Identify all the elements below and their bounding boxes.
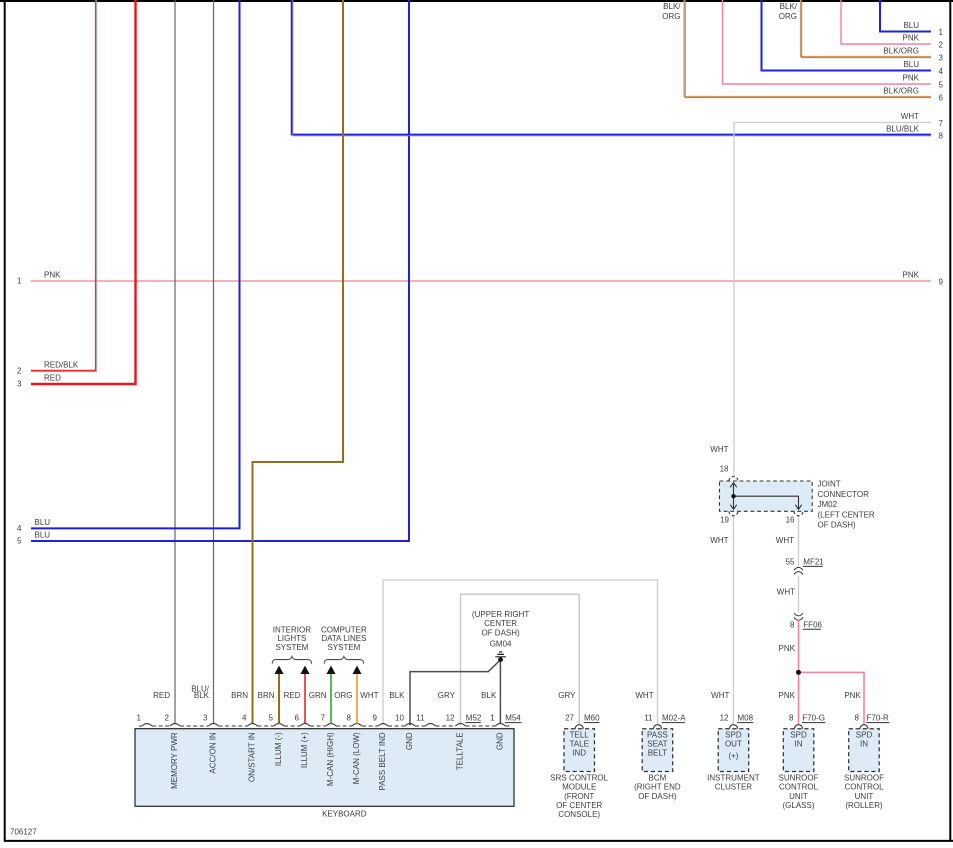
component sunroof control unit roller (SPD IN) [844,714,890,810]
svg-text:SUNROOF: SUNROOF [779,773,819,782]
svg-text:7: 7 [321,714,326,723]
svg-text:9: 9 [939,277,944,286]
svg-text:WHT: WHT [710,445,728,454]
wire BLU/BLK to keyboard pin 3 (drawn gray) [213,0,215,724]
svg-text:8: 8 [939,131,944,140]
svg-text:4: 4 [242,714,247,723]
svg-text:UNIT: UNIT [789,792,808,801]
svg-text:ACC/ON IN: ACC/ON IN [209,732,218,774]
wire WHT (right exit 7 to JM02 pin 18) [710,112,943,477]
svg-text:BRN: BRN [258,691,275,700]
svg-text:3: 3 [203,714,208,723]
junction dot on PNK wire [796,670,801,675]
svg-text:GRY: GRY [438,691,456,700]
svg-text:BLK/ORG: BLK/ORG [883,87,919,96]
wire BRN keyboard pin 5 arrow to interior lights system [278,673,280,724]
keyboard connector name M52 [466,714,482,723]
svg-text:5: 5 [269,714,274,723]
svg-text:OF DASH): OF DASH) [818,521,857,530]
svg-text:PASS BELT IND: PASS BELT IND [378,732,387,790]
svg-text:SRS CONTROL: SRS CONTROL [550,773,608,782]
keyboard connector pin bumps [142,724,505,726]
svg-text:ON/START IN: ON/START IN [248,732,257,782]
svg-text:5: 5 [17,537,22,546]
svg-text:PNK: PNK [779,691,796,700]
keyboard connector M52/M54 dashed line [139,725,510,727]
svg-text:(RIGHT END: (RIGHT END [634,783,681,792]
svg-text:8: 8 [347,714,352,723]
svg-text:WHT: WHT [711,691,729,700]
svg-text:WHT: WHT [901,112,919,121]
wire RED keyboard pin 6 arrow to interior lights system [304,673,306,724]
svg-text:INTERIOR: INTERIOR [273,625,311,634]
svg-text:GRY: GRY [558,691,576,700]
svg-text:GRN: GRN [309,691,327,700]
svg-text:8: 8 [855,714,860,723]
svg-text:6: 6 [939,93,944,102]
svg-text:M08: M08 [738,714,754,723]
wire GRN keyboard pin 7 arrow to computer data lines system [330,673,332,724]
wire PNK (left 1 / right 9) [17,271,943,287]
keyboard connector pin numbers M52 [137,714,455,723]
wire WHT MF21 to FF06 [777,576,799,612]
svg-text:CENTER: CENTER [484,619,517,628]
keyboard wire color labels [153,685,729,700]
svg-text:WHT: WHT [635,691,653,700]
svg-text:BLK/: BLK/ [780,2,798,11]
svg-text:3: 3 [939,53,944,62]
svg-text:SYSTEM: SYSTEM [275,643,308,652]
svg-text:1: 1 [939,28,944,37]
svg-text:10: 10 [395,714,404,723]
svg-text:1: 1 [490,714,495,723]
svg-text:BLU: BLU [903,60,919,69]
svg-text:FF06: FF06 [803,620,822,629]
svg-text:(+): (+) [728,752,738,761]
brace interior lights system [272,625,311,664]
svg-text:2: 2 [939,40,944,49]
svg-text:BLU: BLU [35,531,51,540]
svg-text:COMPUTER: COMPUTER [321,625,367,634]
svg-text:(LEFT CENTER: (LEFT CENTER [818,510,875,519]
wire BLU (right exit 4) [762,0,944,76]
svg-text:11: 11 [644,714,653,723]
svg-text:27: 27 [565,714,574,723]
svg-text:BLK: BLK [481,691,497,700]
svg-text:8: 8 [790,620,795,629]
wire ORG keyboard pin 8 arrow to computer data lines system [356,673,358,724]
svg-text:2: 2 [17,367,22,376]
svg-text:IN: IN [860,740,868,749]
svg-text:SUNROOF: SUNROOF [844,773,884,782]
svg-text:19: 19 [720,515,729,524]
wire PNK (right exit 5) [723,0,944,89]
svg-text:BLK: BLK [194,691,210,700]
wire PNK (right exit 2) [841,0,944,49]
svg-text:(GLASS): (GLASS) [782,801,814,810]
svg-text:TELLTALE: TELLTALE [456,732,465,770]
wire BLU (right exit 1) [880,0,944,37]
wire BLK/ORG (right exit 6) [662,0,943,102]
svg-text:BLU/BLK: BLU/BLK [886,125,920,134]
keyboard pin function labels (rotated) [170,732,504,791]
svg-text:OUT: OUT [725,740,742,749]
svg-text:55: 55 [786,558,795,567]
wire BLU (left exit 5) [17,0,409,546]
svg-text:CONTROL: CONTROL [779,783,819,792]
wire BLK keyboard M54 pin 1 to ground GM04 [481,660,500,724]
svg-text:WHT: WHT [777,587,795,596]
svg-text:PNK: PNK [903,74,920,83]
svg-text:BCM: BCM [649,773,667,782]
svg-text:PNK: PNK [779,644,796,653]
svg-text:MF21: MF21 [803,558,824,567]
svg-text:CONNECTOR: CONNECTOR [818,490,870,499]
svg-text:OF DASH): OF DASH) [638,792,677,801]
svg-text:2: 2 [165,714,170,723]
svg-text:BRN: BRN [231,691,248,700]
svg-text:BLK: BLK [389,691,405,700]
wire BLU (left exit 4) [17,0,239,533]
svg-text:IND: IND [572,749,586,758]
keyboard connector name M54 [505,714,522,723]
svg-text:6: 6 [295,714,300,723]
svg-text:UNIT: UNIT [855,792,874,801]
wire WHT JM02 pin 19 to instrument cluster pin 12 [733,516,735,725]
svg-text:3: 3 [17,380,22,389]
joint connector JM02 [720,477,875,530]
svg-text:(UPPER RIGHT: (UPPER RIGHT [472,610,529,619]
svg-text:SPD: SPD [790,730,807,739]
svg-text:16: 16 [786,515,795,524]
svg-text:RED/BLK: RED/BLK [44,361,79,370]
svg-text:RED: RED [44,374,61,383]
svg-text:MODULE: MODULE [562,783,596,792]
svg-text:ILLUM (-): ILLUM (-) [274,732,283,766]
wire WHT keyboard pin 9 to BCM pin 11 [383,580,658,725]
svg-text:(FRONT: (FRONT [564,792,594,801]
svg-text:12: 12 [446,714,455,723]
svg-text:ORG: ORG [334,691,352,700]
svg-text:IN: IN [795,740,803,749]
svg-text:DATA LINES: DATA LINES [321,634,366,643]
svg-text:KEYBOARD: KEYBOARD [322,809,367,818]
svg-text:GM04: GM04 [490,639,512,648]
svg-text:CONTROL: CONTROL [844,783,884,792]
svg-text:WHT: WHT [360,691,378,700]
svg-text:12: 12 [720,714,729,723]
svg-text:WHT: WHT [776,536,794,545]
svg-text:WHT: WHT [710,536,728,545]
wire PNK FF06 to sunroof units [779,620,864,725]
svg-text:INSTRUMENT: INSTRUMENT [707,773,760,782]
svg-text:LIGHTS: LIGHTS [277,634,306,643]
svg-text:M-CAN (LOW): M-CAN (LOW) [352,732,361,784]
component sunroof control unit glass (SPD IN) [779,714,826,810]
keyboard box [135,729,514,819]
svg-text:RED: RED [284,691,301,700]
component BCM (PASS SEAT BELT) [634,714,686,801]
svg-text:BLU: BLU [903,21,919,30]
svg-text:9: 9 [373,714,378,723]
svg-text:SPD: SPD [856,730,873,739]
svg-text:1: 1 [137,714,142,723]
svg-text:M52: M52 [466,714,482,723]
svg-text:BELT: BELT [648,749,668,758]
svg-text:SEAT: SEAT [647,740,667,749]
svg-text:18: 18 [720,465,729,474]
svg-text:OF CENTER: OF CENTER [556,801,602,810]
svg-text:8: 8 [789,714,794,723]
inline connector 8 FF06 [790,613,822,629]
wire BLU/BLK (right exit 8) [292,0,944,140]
svg-text:F70-R: F70-R [867,714,889,723]
svg-text:M54: M54 [505,714,521,723]
svg-text:PNK: PNK [903,271,920,280]
svg-text:M-CAN (HIGH): M-CAN (HIGH) [326,732,335,786]
inline connector 55 MF21 [786,558,825,575]
svg-text:GND: GND [495,732,504,750]
svg-text:5: 5 [939,80,944,89]
svg-text:CLUSTER: CLUSTER [715,783,753,792]
svg-text:BLK/: BLK/ [663,2,681,11]
svg-text:JOINT: JOINT [818,480,841,489]
svg-text:M60: M60 [584,714,600,723]
wire GRY keyboard pin 12 to SRS pin 27 [461,594,580,725]
svg-text:PNK: PNK [844,691,861,700]
svg-text:ILLUM (+): ILLUM (+) [300,732,309,768]
wire BLK/ORG (right exit 3) [779,0,944,62]
svg-text:TALE: TALE [569,740,588,749]
svg-text:PNK: PNK [44,271,61,280]
svg-text:4: 4 [939,67,944,76]
svg-text:ORG: ORG [662,12,680,21]
svg-text:PASS: PASS [647,730,668,739]
svg-text:4: 4 [17,524,22,533]
svg-text:1: 1 [17,277,22,286]
svg-text:SPD: SPD [725,730,742,739]
svg-text:OF DASH): OF DASH) [481,628,520,637]
svg-text:(ROLLER): (ROLLER) [845,801,883,810]
svg-text:JM02: JM02 [818,500,838,509]
wire RED/BLK (left exit 2) [17,0,97,376]
brace computer data lines system [321,625,367,664]
svg-text:BLU: BLU [35,518,51,527]
svg-text:BLK/ORG: BLK/ORG [883,47,919,56]
svg-text:CONSOLE): CONSOLE) [558,810,600,819]
svg-text:F70-G: F70-G [802,714,825,723]
wire BLK keyboard pin 10 to ground GM04 [389,661,499,725]
svg-text:RED: RED [153,691,170,700]
svg-text:M02-A: M02-A [662,714,686,723]
wire RED (left exit 3) [17,0,135,389]
svg-text:11: 11 [416,714,425,723]
component instrument cluster (SPD OUT +) [707,714,760,792]
svg-text:GND: GND [405,732,414,750]
svg-text:ORG: ORG [779,12,797,21]
svg-text:706127: 706127 [10,828,37,837]
ground GM04 [472,610,529,662]
svg-text:7: 7 [939,119,944,128]
svg-text:MEMORY PWR: MEMORY PWR [170,732,179,789]
svg-text:TELL: TELL [570,730,590,739]
wire RED to keyboard pin 2 (drawn gray) [174,0,176,724]
component SRS control module (TELL TALE IND) [550,714,608,820]
wire WHT JM02 pin 16 to splice MF21 [710,516,798,567]
svg-text:PNK: PNK [903,34,920,43]
svg-text:SYSTEM: SYSTEM [327,643,360,652]
wire BRN from top to keyboard pin 4 [253,0,344,724]
